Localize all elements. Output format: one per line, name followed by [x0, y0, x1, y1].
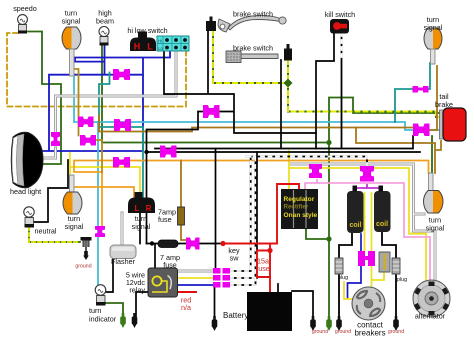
wire yellow left turn lamp — [70, 153, 140, 197]
wire white headlight low beam — [44, 51, 176, 158]
node key sw red — [220, 241, 225, 246]
wire black brake plunger — [280, 60, 282, 149]
svg-text:fuse: fuse — [256, 264, 270, 273]
svg-text:brake switch: brake switch — [233, 44, 273, 53]
wire black flasher to indicator — [106, 258, 113, 292]
fuse 7amp horizontal — [158, 240, 178, 248]
terminal green regulator ground — [326, 316, 332, 331]
svg-text:Hi: Hi — [158, 39, 162, 44]
wire black main bus — [147, 136, 421, 152]
svg-text:relay: relay — [129, 286, 145, 295]
terminal black indicator — [132, 313, 138, 328]
terminal black battery ground — [310, 316, 316, 331]
svg-text:signal: signal — [424, 23, 443, 32]
wire cyan turn indicator branch — [97, 122, 99, 284]
wire yellow points — [344, 193, 384, 299]
wire black kill switch — [316, 33, 334, 149]
terminal black relay — [212, 316, 218, 331]
wire dark green speedo-headlight ground — [28, 32, 61, 165]
svg-text:brake switch: brake switch — [233, 10, 273, 19]
bulb speedo — [18, 15, 28, 34]
wire brown rear right turn — [356, 128, 441, 174]
wire yellow regulator and alternator — [289, 151, 426, 282]
connector brake lever black — [206, 17, 216, 32]
node green junction lower — [326, 236, 331, 241]
terminal black coil left ground — [336, 316, 342, 331]
svg-text:indicator: indicator — [89, 315, 117, 324]
node green junction upper — [326, 140, 331, 145]
wire white relay out — [177, 270, 213, 273]
svg-text:coil: coil — [349, 222, 361, 229]
connector G key line — [186, 238, 200, 250]
connector bullet pair top-right — [413, 86, 429, 93]
wire blue points — [348, 234, 362, 298]
connector H tail harness — [413, 124, 430, 137]
battery — [247, 292, 292, 331]
wire black key line — [140, 213, 222, 268]
svg-text:signal: signal — [65, 222, 84, 231]
svg-text:signal: signal — [62, 17, 81, 26]
svg-text:L: L — [147, 42, 153, 52]
wire black headlight ground — [146, 152, 148, 244]
svg-text:ground: ground — [312, 329, 328, 335]
svg-text:neutral: neutral — [35, 227, 57, 236]
wire green indicator ground — [105, 303, 123, 313]
lamp turn signal top-right — [424, 28, 442, 64]
spark plug cap left — [335, 258, 343, 274]
connector D black line — [203, 105, 220, 118]
svg-text:Battery: Battery — [223, 311, 248, 320]
wire black hi-low switch — [147, 31, 317, 152]
wire pink regulator and alternator — [305, 180, 430, 282]
wire black coil left — [339, 233, 352, 316]
connector E cyan line — [78, 117, 94, 128]
bulb high beam — [99, 27, 109, 46]
node battery red — [267, 248, 272, 253]
connector A2 blue line — [113, 69, 130, 80]
wire red key switch to battery — [177, 184, 299, 292]
connector indicator vertical — [95, 226, 105, 237]
svg-text:breakers: breakers — [354, 329, 385, 338]
wire dark green regulator ground — [306, 136, 432, 239]
wire orange main — [72, 161, 429, 227]
wire dark green high beam — [102, 45, 329, 143]
hi low switch body — [130, 32, 156, 52]
connector A green line — [114, 119, 131, 131]
connector I coil feed vertical — [360, 166, 374, 182]
svg-text:plug: plug — [397, 277, 407, 283]
brake switch plunger — [226, 51, 278, 63]
svg-text:ground: ground — [335, 329, 351, 335]
lamp turn signal left-mid — [63, 175, 82, 214]
relay 5 wire box — [148, 268, 178, 297]
brake switch lever — [218, 16, 286, 32]
svg-text:plug: plug — [338, 275, 348, 281]
lamp turn signal right-rear — [424, 173, 444, 213]
svg-text:ground: ground — [75, 264, 91, 270]
terminal black coil right ground — [393, 316, 399, 331]
kill switch — [330, 19, 349, 34]
lamp tail brake — [440, 108, 467, 141]
wire brown main — [99, 66, 437, 132]
svg-text:brake: brake — [435, 100, 453, 109]
wire black-white dashed kill switch — [341, 33, 343, 149]
wire black relay ground — [136, 292, 148, 316]
wire brown fuse to key — [181, 161, 186, 241]
wire white bus to alternator — [290, 164, 435, 282]
bulb neutral — [24, 207, 34, 228]
terminal green indicator — [120, 313, 126, 328]
coil 1 — [347, 186, 364, 234]
relay output connectors — [213, 268, 230, 288]
svg-text:signal: signal — [426, 224, 445, 233]
svg-text:kill switch: kill switch — [325, 10, 355, 19]
wire blue headlight loop — [43, 45, 170, 151]
svg-text:Regulator: Regulator — [284, 196, 315, 203]
turn signal switch L/R — [128, 192, 155, 213]
svg-text:ground: ground — [388, 329, 404, 335]
connector F — [80, 135, 96, 146]
spark plug cap right — [392, 258, 400, 274]
wire black relay third — [215, 149, 216, 316]
contact breakers assembly — [352, 287, 385, 320]
lamp turn signal front-left — [62, 27, 81, 76]
svg-text:Onan style: Onan style — [284, 212, 318, 219]
wire black-white dashed relay outputs — [230, 157, 367, 286]
svg-text:Rectifier: Rectifier — [284, 204, 309, 211]
wire blue relay out — [177, 284, 213, 286]
wire dashed dark-yellow speedo/border — [7, 33, 186, 107]
ground symbol left — [81, 237, 92, 260]
svg-text:hi low switch: hi low switch — [127, 26, 167, 35]
flasher box — [110, 245, 136, 259]
svg-text:alternator: alternator — [415, 312, 446, 321]
wire teal to switch — [99, 73, 143, 198]
svg-text:coil: coil — [376, 221, 388, 228]
connector brake plunger black — [284, 44, 292, 61]
head light — [11, 132, 43, 188]
svg-text:head light: head light — [10, 187, 41, 196]
node black bus junction — [144, 150, 148, 154]
svg-text:fuse: fuse — [158, 215, 172, 224]
wire black battery ground — [278, 284, 313, 316]
node green diamond brake junction — [284, 79, 293, 88]
hi low switch connector block — [157, 36, 189, 51]
wire black coil right — [382, 232, 396, 316]
svg-text:sw: sw — [230, 254, 240, 263]
alternator assembly — [413, 280, 450, 317]
connector V white line vertical — [51, 132, 60, 146]
svg-text:Lo: Lo — [158, 46, 163, 51]
wire yellow-green dashed brake circuit — [213, 31, 444, 117]
svg-text:beam: beam — [96, 17, 114, 26]
wire black ignition feed — [256, 152, 258, 251]
svg-text:H: H — [134, 42, 141, 52]
wire black neutral — [34, 160, 68, 222]
svg-text:speedo: speedo — [13, 4, 37, 13]
condenser — [379, 252, 390, 272]
wire cyan main — [74, 76, 444, 130]
connector J regulator feed vertical — [309, 164, 322, 178]
wire brown turn signal to F — [72, 69, 103, 172]
WIRES_START — [7, 31, 444, 317]
svg-text:Flasher: Flasher — [111, 257, 136, 266]
wire dark green main ground bus right — [329, 98, 443, 318]
bulb turn indicator — [95, 285, 106, 306]
connector C orange line — [113, 157, 130, 168]
node black key branch — [150, 241, 154, 245]
svg-text:R: R — [146, 204, 152, 213]
svg-text:n/a: n/a — [181, 303, 191, 312]
svg-text:fuse: fuse — [163, 261, 177, 270]
wire violet coil feeds — [355, 185, 381, 191]
coil 2 — [374, 186, 391, 233]
svg-text:signal: signal — [132, 222, 151, 231]
points connector pair — [358, 251, 375, 266]
connector B black bus — [160, 146, 177, 158]
regulator rectifier box — [281, 189, 318, 229]
svg-text:L: L — [135, 204, 140, 213]
wire yellow-green dashed neutral — [29, 227, 80, 242]
wire yellow relay out — [177, 277, 213, 279]
wire teal top-right turn signal — [395, 63, 430, 122]
wire white switch to flasher — [121, 213, 124, 244]
fuse 7amp vertical — [178, 207, 185, 225]
